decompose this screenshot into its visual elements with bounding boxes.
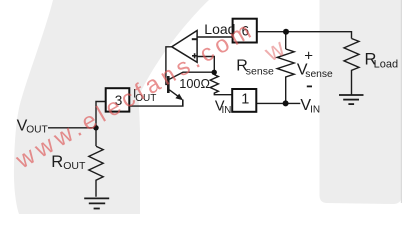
svg-text:sense: sense (305, 69, 333, 80)
svg-text:IN: IN (222, 105, 232, 116)
svg-text:IN: IN (310, 105, 320, 116)
svg-text:+: + (304, 47, 313, 64)
svg-text:Load: Load (374, 58, 398, 70)
svg-text:1: 1 (241, 91, 249, 107)
svg-text:OUT: OUT (63, 160, 86, 172)
svg-text:sense: sense (246, 65, 274, 77)
